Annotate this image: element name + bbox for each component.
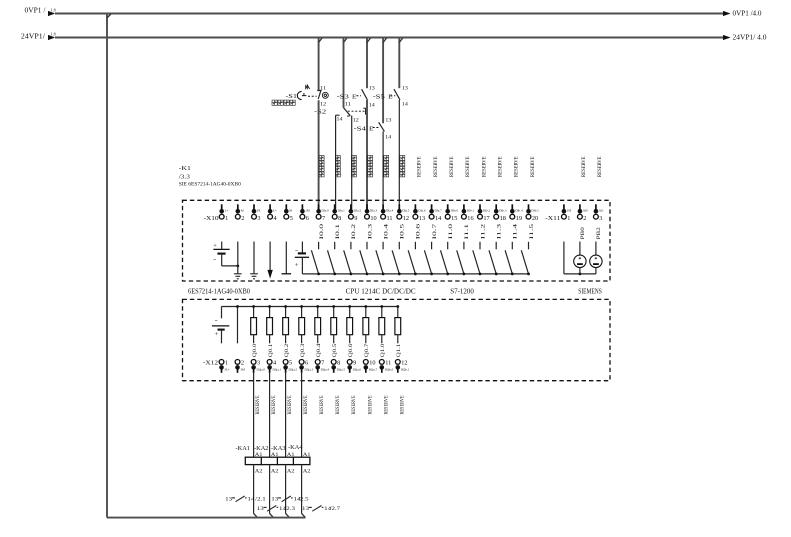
wire tap to S5 contact 13 (t12) bbox=[399, 38, 402, 89]
wire S3 pin14 to terminal t8 bbox=[335, 115, 337, 209]
svg-text:RESERVE: RESERVE bbox=[433, 157, 439, 178]
terminal -X10:6 bbox=[300, 204, 310, 222]
svg-text:PB0: PB0 bbox=[580, 227, 586, 239]
pushbutton S4 contact 13/14 bbox=[354, 119, 392, 141]
svg-text:7: 7 bbox=[322, 215, 325, 222]
svg-text:I0.7: I0.7 bbox=[432, 223, 438, 239]
svg-text:13: 13 bbox=[302, 506, 309, 512]
PLC nameplate text row bbox=[188, 288, 602, 295]
relay coil KA4 bbox=[288, 444, 311, 475]
wire tap to S2 (t7) bbox=[319, 38, 322, 92]
svg-text:-: - bbox=[295, 247, 298, 254]
terminal -X12:5 bbox=[283, 360, 297, 373]
svg-text:0VP1 /4.0: 0VP1 /4.0 bbox=[733, 11, 763, 18]
svg-text:2: 2 bbox=[583, 215, 586, 222]
wire output 3L+ bus bbox=[222, 306, 398, 308]
svg-text:8: 8 bbox=[337, 360, 340, 367]
svg-text:13: 13 bbox=[419, 215, 425, 222]
DI input contact for terminal 19 bbox=[505, 242, 512, 274]
terminal -X12:2 bbox=[235, 360, 245, 373]
svg-text:DIb.1: DIb.1 bbox=[467, 209, 475, 213]
wire X11 2M common bbox=[564, 242, 596, 274]
svg-text:I0.0: I0.0 bbox=[319, 223, 325, 239]
svg-text:Q0.2: Q0.2 bbox=[284, 343, 290, 357]
svg-text:DQa.0: DQa.0 bbox=[257, 367, 266, 371]
svg-text:-KA1: -KA1 bbox=[236, 445, 251, 452]
svg-text:1M: 1M bbox=[305, 209, 310, 213]
svg-text:M: M bbox=[289, 209, 292, 213]
svg-text:I1.1: I1.1 bbox=[464, 223, 470, 239]
svg-text:13: 13 bbox=[402, 87, 409, 92]
terminal -X12:1 bbox=[219, 360, 230, 373]
terminal -X12:12 bbox=[395, 360, 409, 373]
svg-text:A2: A2 bbox=[271, 468, 279, 474]
svg-text:3M: 3M bbox=[240, 367, 245, 371]
svg-text:DIb.2: DIb.2 bbox=[483, 209, 491, 213]
svg-text:+: + bbox=[213, 242, 218, 249]
DI input contact for terminal 11 bbox=[376, 242, 383, 274]
relay coil KA2 bbox=[254, 445, 279, 475]
battery 1M internal supply bbox=[295, 242, 309, 274]
analog potentiometer PB0 bbox=[574, 242, 586, 274]
svg-text:DQa.5: DQa.5 bbox=[337, 367, 346, 371]
svg-text:RESERVE: RESERVE bbox=[597, 157, 603, 178]
svg-text:Q0.1: Q0.1 bbox=[268, 343, 274, 357]
node junction on output bus bbox=[332, 305, 335, 308]
svg-text:DIa.6: DIa.6 bbox=[418, 209, 426, 213]
terminal -X10:13 bbox=[413, 204, 426, 222]
svg-text:-S3: -S3 bbox=[337, 94, 349, 101]
svg-text:DIb.3: DIb.3 bbox=[499, 209, 507, 213]
svg-text:A2: A2 bbox=[255, 468, 263, 474]
label 复位按钮 input wire bbox=[368, 156, 373, 177]
node junction on 1M bus bbox=[317, 273, 320, 276]
terminal -X12:3 bbox=[251, 360, 265, 373]
DI input contact for terminal 15 bbox=[441, 242, 448, 274]
node junction on 1M bus bbox=[463, 273, 466, 276]
node junction on output bus bbox=[268, 305, 271, 308]
terminal -X12:8 bbox=[331, 360, 345, 373]
wire t4 L+ with down arrow bbox=[267, 242, 272, 279]
svg-text:13: 13 bbox=[385, 119, 392, 124]
svg-text:DQa.1: DQa.1 bbox=[273, 367, 282, 371]
relay coil KA1 bbox=[236, 445, 263, 475]
svg-text:3: 3 bbox=[257, 215, 260, 222]
svg-text:SIEMENS: SIEMENS bbox=[578, 288, 602, 295]
svg-text:RESERVE: RESERVE bbox=[367, 396, 373, 415]
svg-text:RESERVE: RESERVE bbox=[319, 396, 325, 415]
svg-text:11: 11 bbox=[385, 360, 391, 367]
terminal -X10:12 bbox=[397, 204, 410, 222]
svg-text:RESERVE: RESERVE bbox=[271, 396, 277, 415]
svg-text:Q0.4: Q0.4 bbox=[316, 343, 322, 357]
DI input contact for terminal 8 bbox=[328, 242, 335, 274]
node junction on 1M bus bbox=[479, 273, 482, 276]
svg-text:14: 14 bbox=[247, 497, 254, 503]
svg-text:/3.3: /3.3 bbox=[179, 174, 190, 180]
wire t3 PE to earth bbox=[253, 242, 255, 274]
terminal -X10:18 bbox=[494, 204, 507, 222]
svg-text:-: - bbox=[215, 317, 218, 324]
svg-text:13: 13 bbox=[257, 506, 264, 512]
svg-text:RESERVE: RESERVE bbox=[255, 396, 261, 415]
svg-text:-K1: -K1 bbox=[179, 165, 191, 172]
wire 0VP1 bus bbox=[55, 13, 723, 15]
DI input contact for terminal 16 bbox=[457, 242, 464, 274]
svg-text:Q1.1: Q1.1 bbox=[396, 343, 402, 357]
node junction on output bus bbox=[348, 305, 351, 308]
svg-text:19: 19 bbox=[516, 215, 522, 222]
svg-text:/2.1: /2.1 bbox=[255, 497, 266, 503]
label 停止按钮 input wire bbox=[400, 156, 405, 177]
svg-text:12: 12 bbox=[320, 103, 327, 108]
svg-text:RESERVE: RESERVE bbox=[498, 157, 504, 178]
DI input contact for terminal 7 bbox=[311, 242, 318, 274]
svg-text:I0.6: I0.6 bbox=[416, 223, 422, 239]
svg-text:14: 14 bbox=[402, 103, 409, 108]
wire bottom 0V rail bbox=[107, 517, 306, 519]
svg-text:1: 1 bbox=[225, 360, 228, 367]
svg-text:I1.2: I1.2 bbox=[480, 223, 486, 239]
terminal -X12:6 bbox=[299, 360, 313, 373]
terminal -X10:16 bbox=[462, 204, 475, 222]
output driver resistor Q1.1 bbox=[395, 307, 401, 344]
svg-text:24VP1/: 24VP1/ bbox=[21, 33, 45, 40]
svg-text:I0.3: I0.3 bbox=[367, 223, 373, 239]
node junction on output bus bbox=[380, 305, 383, 308]
terminal -X10:14 bbox=[429, 204, 442, 222]
svg-text:14: 14 bbox=[369, 103, 376, 108]
net 24VP1 right outgoing bbox=[723, 35, 767, 42]
svg-text:DIa.5: DIa.5 bbox=[402, 209, 410, 213]
svg-text:RESERVE: RESERVE bbox=[399, 396, 405, 415]
output driver resistor Q0.6 bbox=[347, 307, 353, 344]
svg-text:11: 11 bbox=[320, 86, 327, 91]
node junction on 1M bus bbox=[511, 273, 514, 276]
svg-text:DIb.0: DIb.0 bbox=[451, 209, 459, 213]
svg-text:11: 11 bbox=[387, 215, 393, 222]
svg-text:I0.5: I0.5 bbox=[400, 223, 406, 239]
svg-text:RESERVE: RESERVE bbox=[303, 396, 309, 415]
ground earth at M bbox=[234, 274, 242, 279]
terminal -X10:1 bbox=[219, 204, 228, 222]
svg-text:-S4: -S4 bbox=[354, 126, 367, 133]
PLC K1 input section dashed box bbox=[183, 200, 611, 281]
svg-text:I0.1: I0.1 bbox=[335, 223, 341, 239]
node junction on output bus bbox=[252, 305, 255, 308]
battery 24V sensor supply L+/M bbox=[213, 242, 238, 266]
svg-text:3L+: 3L+ bbox=[224, 367, 230, 371]
svg-text:DIa.0: DIa.0 bbox=[322, 209, 330, 213]
svg-text:13: 13 bbox=[271, 497, 278, 503]
node junction on 1M bus bbox=[527, 273, 530, 276]
net 24VP1 left incoming bbox=[21, 31, 56, 40]
node junction on 1M bus bbox=[366, 273, 369, 276]
svg-text:15: 15 bbox=[451, 215, 457, 222]
svg-text:10: 10 bbox=[369, 360, 375, 367]
net 0VP1 left incoming bbox=[25, 8, 56, 17]
node junction on 1M bus bbox=[430, 273, 433, 276]
svg-text:/2.3: /2.3 bbox=[284, 506, 295, 512]
pushbutton S5 contact 13/14 bbox=[373, 87, 409, 108]
svg-text:PE: PE bbox=[257, 209, 261, 213]
svg-text:3: 3 bbox=[257, 360, 260, 367]
svg-text:20: 20 bbox=[532, 215, 538, 222]
svg-text:I0.2: I0.2 bbox=[351, 223, 357, 239]
label 急停按钮 under S1 bbox=[272, 100, 295, 105]
wire output Q0.3 to relay coil KA4 bbox=[301, 373, 303, 458]
svg-text:12: 12 bbox=[353, 118, 360, 123]
svg-text:A2: A2 bbox=[287, 468, 295, 474]
svg-text:AI0: AI0 bbox=[583, 209, 588, 213]
node junction on 1M bus bbox=[446, 273, 449, 276]
wire 24VP1 bus bbox=[55, 37, 723, 39]
DI input contact for terminal 20 bbox=[521, 242, 528, 274]
svg-text:RESERVE: RESERVE bbox=[449, 157, 455, 178]
svg-text:DQa.6: DQa.6 bbox=[353, 367, 362, 371]
node junction on 1M bus bbox=[414, 273, 417, 276]
node junction X11 bbox=[579, 273, 582, 276]
DI input contact for terminal 18 bbox=[489, 242, 496, 274]
svg-text:S7-1200: S7-1200 bbox=[450, 288, 474, 295]
output driver resistor Q0.7 bbox=[363, 307, 369, 344]
svg-text:13: 13 bbox=[369, 87, 376, 92]
svg-text:-S1: -S1 bbox=[286, 93, 298, 100]
ground earth at PE bbox=[250, 274, 258, 279]
svg-text:DQb.0: DQb.0 bbox=[385, 367, 394, 371]
svg-text:/2.7: /2.7 bbox=[330, 506, 341, 512]
wire S2 to terminal t7 bbox=[318, 100, 320, 209]
svg-text:RESERVE: RESERVE bbox=[287, 396, 293, 415]
svg-text:PB2: PB2 bbox=[596, 227, 602, 239]
node junction on output bus bbox=[300, 305, 303, 308]
svg-text:0VP1 /: 0VP1 / bbox=[25, 8, 46, 15]
svg-text:DQa.2: DQa.2 bbox=[289, 367, 298, 371]
svg-text:14: 14 bbox=[337, 117, 344, 122]
node junction on 1M bus bbox=[350, 273, 353, 276]
svg-text:DIb.4: DIb.4 bbox=[515, 209, 523, 213]
terminal -X10:2 bbox=[235, 204, 244, 222]
wire coil KA4 A2 to 0V rail bbox=[302, 465, 306, 518]
wire output Q0.1 to relay coil KA2 bbox=[269, 373, 271, 458]
svg-text:-: - bbox=[213, 256, 216, 263]
svg-text:-S5: -S5 bbox=[373, 94, 385, 101]
svg-text:18: 18 bbox=[500, 215, 506, 222]
label 自动模式 input wire bbox=[352, 156, 357, 177]
wire coil KA3 A2 to 0V rail bbox=[286, 465, 290, 518]
svg-text:2M: 2M bbox=[567, 209, 572, 213]
contact reference KA3 13/14 /2.5 bbox=[271, 496, 309, 503]
svg-text:6ES7214-1AG40-0XB0: 6ES7214-1AG40-0XB0 bbox=[188, 288, 251, 295]
svg-text:L+: L+ bbox=[273, 209, 277, 213]
svg-text:DQa.7: DQa.7 bbox=[369, 367, 378, 371]
svg-text:A2: A2 bbox=[303, 468, 311, 474]
svg-text:I1.3: I1.3 bbox=[497, 223, 503, 239]
svg-text:12: 12 bbox=[403, 215, 409, 222]
wire coil KA2 A2 to 0V rail bbox=[270, 465, 274, 518]
svg-text:5: 5 bbox=[290, 215, 293, 222]
svg-text:RESERVE: RESERVE bbox=[465, 157, 471, 178]
svg-text:L+: L+ bbox=[225, 209, 229, 213]
DI input contact for terminal 14 bbox=[424, 242, 431, 274]
svg-text:9: 9 bbox=[354, 215, 357, 222]
svg-text:6: 6 bbox=[305, 360, 308, 367]
svg-text:DIb.5: DIb.5 bbox=[531, 209, 539, 213]
svg-text:16: 16 bbox=[467, 215, 473, 222]
node M junction bbox=[236, 265, 239, 268]
wire coil KA1 A2 to 0V rail bbox=[254, 465, 258, 518]
svg-text:Q0.0: Q0.0 bbox=[252, 343, 258, 357]
terminal -X12:7 bbox=[315, 360, 329, 373]
node junction on output bus bbox=[364, 305, 367, 308]
svg-text:12: 12 bbox=[401, 360, 407, 367]
contact reference KA4 13/14 /2.7 bbox=[302, 506, 341, 513]
analog potentiometer PB2 bbox=[590, 242, 602, 274]
wire t5 M with end bar bbox=[282, 242, 292, 274]
wire S3 pin12 to terminal t9 bbox=[351, 116, 353, 209]
svg-text:9: 9 bbox=[353, 360, 356, 367]
svg-text:M: M bbox=[241, 209, 244, 213]
svg-text:1: 1 bbox=[567, 215, 570, 222]
output driver resistor Q0.1 bbox=[267, 307, 273, 344]
svg-text:RESERVE: RESERVE bbox=[383, 396, 389, 415]
selector switch S3 changeover pins 11/12/14 bbox=[336, 103, 368, 124]
output driver resistor Q0.0 bbox=[251, 307, 257, 344]
svg-text:RESERVE: RESERVE bbox=[514, 157, 520, 178]
wire S5 contact to terminal t12 bbox=[398, 100, 400, 209]
terminal -X10:8 bbox=[332, 204, 345, 222]
wire t2 M to earth bbox=[237, 242, 239, 274]
node junction on 1M bus bbox=[398, 273, 401, 276]
DI input contact for terminal 13 bbox=[408, 242, 415, 274]
svg-text:Q0.3: Q0.3 bbox=[300, 343, 306, 357]
PLC K1 reference label bbox=[179, 165, 241, 187]
terminal -X10:11 bbox=[381, 204, 394, 222]
wire tap to S3 selector bbox=[344, 38, 347, 108]
svg-text:Q0.6: Q0.6 bbox=[348, 343, 354, 357]
DI input contact for terminal 10 bbox=[360, 242, 367, 274]
svg-text:Q1.0: Q1.0 bbox=[380, 343, 386, 357]
svg-text:-KA4: -KA4 bbox=[288, 444, 303, 451]
svg-text:24VP1/ 4.0: 24VP1/ 4.0 bbox=[733, 35, 768, 42]
svg-text:8: 8 bbox=[338, 215, 341, 222]
wire S3 contact to terminal t10 bbox=[366, 100, 368, 209]
wire output Q0.2 to relay coil KA3 bbox=[285, 373, 287, 458]
svg-text:-S2: -S2 bbox=[314, 109, 326, 116]
svg-text:-X10: -X10 bbox=[204, 216, 219, 222]
wire S4 contact to terminal t11 bbox=[382, 131, 384, 209]
svg-text:-KA3: -KA3 bbox=[271, 445, 286, 452]
svg-text:DIa.4: DIa.4 bbox=[386, 209, 394, 213]
svg-text:1.8: 1.8 bbox=[51, 8, 56, 13]
svg-text:+: + bbox=[295, 262, 300, 269]
svg-text:14: 14 bbox=[435, 215, 442, 222]
label 手动模式 input wire bbox=[335, 156, 340, 177]
wire t2 3M return bbox=[237, 307, 239, 344]
output driver resistor Q0.2 bbox=[283, 307, 289, 344]
node junction on 1M bus bbox=[495, 273, 498, 276]
node junction 3M bbox=[236, 305, 239, 308]
svg-text:1.8: 1.8 bbox=[51, 31, 56, 36]
terminal -X12:4 bbox=[267, 360, 281, 373]
svg-text:6: 6 bbox=[306, 215, 309, 222]
terminal -X12:11 bbox=[379, 360, 393, 373]
node junction on 1M bus bbox=[333, 273, 336, 276]
DI input contact for terminal 9 bbox=[344, 242, 351, 274]
wire tap to S4 contact 13 (t11) bbox=[383, 38, 386, 124]
terminal -X10:4 bbox=[268, 204, 278, 222]
terminal -X10:9 bbox=[349, 204, 362, 222]
svg-text:I1.5: I1.5 bbox=[529, 223, 535, 239]
svg-text:-X11: -X11 bbox=[545, 216, 560, 222]
terminal -X10:7 bbox=[316, 204, 329, 222]
svg-text:DIa.7: DIa.7 bbox=[435, 209, 443, 213]
terminal -X10:20 bbox=[526, 204, 539, 222]
battery output supply 3L+/3M bbox=[212, 307, 229, 344]
svg-text:DQb.1: DQb.1 bbox=[401, 367, 410, 371]
svg-text:RESERVE: RESERVE bbox=[581, 157, 587, 178]
terminal -X10:17 bbox=[478, 204, 491, 222]
svg-text:DIa.1: DIa.1 bbox=[338, 209, 346, 213]
svg-text:Q0.7: Q0.7 bbox=[364, 343, 370, 357]
svg-text:2: 2 bbox=[241, 215, 244, 222]
svg-text:DIa.2: DIa.2 bbox=[354, 209, 362, 213]
svg-text:CPU 1214C DC/DC/DC: CPU 1214C DC/DC/DC bbox=[346, 288, 416, 295]
output driver resistor Q0.3 bbox=[299, 307, 305, 344]
terminal -X12:9 bbox=[347, 360, 361, 373]
svg-text:/2.5: /2.5 bbox=[298, 497, 309, 503]
terminal -X10:5 bbox=[284, 204, 293, 222]
node junction on output bus bbox=[316, 305, 319, 308]
DI input contact for terminal 12 bbox=[392, 242, 399, 274]
svg-text:14: 14 bbox=[385, 135, 392, 140]
svg-text:10: 10 bbox=[370, 215, 376, 222]
output driver resistor Q0.4 bbox=[315, 307, 321, 344]
svg-text:RESERVE: RESERVE bbox=[351, 396, 357, 415]
svg-text:-X12: -X12 bbox=[203, 361, 218, 367]
svg-text:11: 11 bbox=[345, 103, 352, 108]
node junction on output bus bbox=[284, 305, 287, 308]
svg-text:RESERVE: RESERVE bbox=[335, 396, 341, 415]
svg-text:RESERVE: RESERVE bbox=[481, 157, 487, 178]
terminal -X11:2 bbox=[578, 204, 589, 222]
pushbutton S1 emergency-stop actuator bbox=[286, 85, 317, 100]
terminal -X11:1 bbox=[562, 204, 572, 222]
node junction on 1M bus bbox=[382, 273, 385, 276]
svg-text:7: 7 bbox=[321, 360, 324, 367]
label 急停按钮 input wire bbox=[319, 156, 324, 177]
switch S3 contact 13/14 with actuator label bbox=[337, 87, 376, 109]
svg-text:AI1: AI1 bbox=[599, 209, 604, 213]
svg-text:Q0.5: Q0.5 bbox=[332, 343, 338, 357]
wire tap to S3 contact 13 (t10) bbox=[367, 38, 370, 89]
svg-text:DQa.3: DQa.3 bbox=[305, 367, 314, 371]
svg-text:SIE 6ES7214-1AG40-0XB0: SIE 6ES7214-1AG40-0XB0 bbox=[179, 181, 241, 187]
emergency stop contact S2 pins 11/12 bbox=[314, 86, 328, 115]
svg-text:1: 1 bbox=[225, 215, 228, 222]
svg-text:13: 13 bbox=[225, 497, 232, 503]
output driver resistor Q1.0 bbox=[379, 307, 385, 344]
svg-text:2: 2 bbox=[241, 360, 244, 367]
svg-text:+: + bbox=[214, 331, 219, 338]
svg-text:I1.0: I1.0 bbox=[448, 223, 454, 239]
terminal -X11:3 bbox=[594, 204, 605, 222]
svg-text:RESERVE: RESERVE bbox=[417, 157, 423, 178]
terminal -X10:10 bbox=[365, 204, 378, 222]
svg-text:I1.4: I1.4 bbox=[513, 223, 519, 239]
svg-text:DQa.4: DQa.4 bbox=[321, 367, 330, 371]
svg-text:DIa.3: DIa.3 bbox=[370, 209, 378, 213]
